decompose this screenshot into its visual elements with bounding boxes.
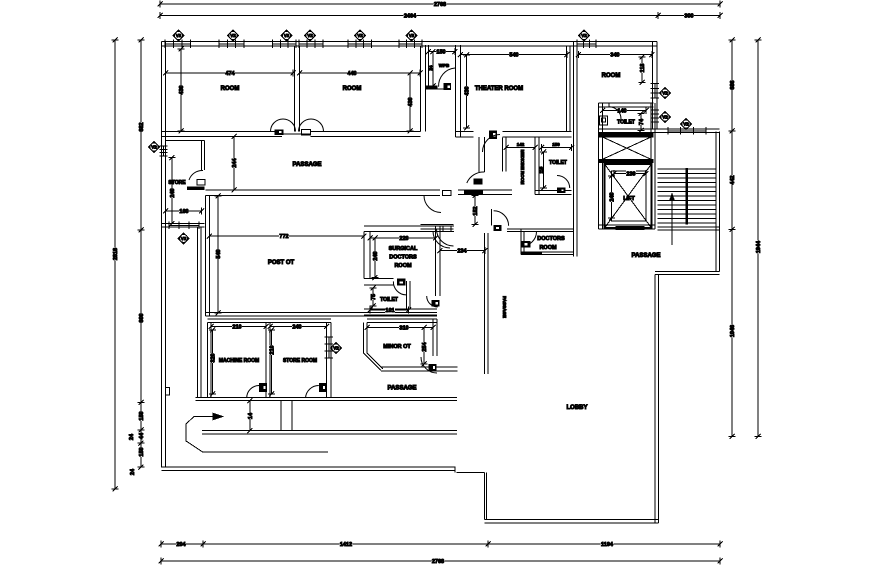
svg-text:150: 150	[139, 447, 145, 456]
svg-text:SURGICAL: SURGICAL	[389, 246, 418, 252]
machine width dim 210	[211, 326, 266, 328]
svg-text:V2: V2	[284, 33, 290, 38]
svg-text:ROOM: ROOM	[602, 73, 621, 79]
svg-text:V2: V2	[230, 33, 236, 38]
dimension right chain 686/442/1046	[731, 40, 733, 131]
wall minor OT left	[363, 323, 365, 353]
minor OT width dim 310	[367, 327, 433, 329]
svg-text:115: 115	[539, 166, 544, 173]
toilet mid width dim 150	[542, 147, 572, 149]
wall minor OT right	[432, 319, 434, 356]
corridor width dim 152	[474, 196, 476, 225]
theater height dim 430	[466, 55, 468, 128]
window store room right wall	[325, 336, 334, 338]
wall theater left / WPB right	[455, 45, 457, 137]
svg-text:V2: V2	[176, 33, 182, 38]
svg-text:24: 24	[130, 468, 136, 475]
svg-text:254: 254	[422, 341, 428, 351]
grid bubble V1 a	[305, 30, 316, 41]
svg-text:DOCTORS: DOCTORS	[537, 236, 565, 242]
wall store top	[166, 136, 205, 138]
stair treads	[658, 168, 716, 170]
svg-text:1944: 1944	[756, 240, 762, 253]
wall passage bottom / post OT top	[206, 189, 441, 191]
svg-text:V2: V2	[181, 236, 187, 241]
svg-text:340: 340	[610, 53, 619, 59]
ramp line 3 with turn arrow	[186, 417, 328, 453]
svg-text:118: 118	[640, 64, 646, 73]
wall surgical left	[363, 232, 365, 279]
svg-text:2464: 2464	[404, 14, 417, 20]
wall under shaft	[599, 158, 654, 160]
passage vertical wall right	[484, 233, 486, 374]
wall stair bottom	[658, 226, 720, 228]
corridor width dim 234	[440, 250, 485, 252]
wall lobby step ledge	[456, 472, 484, 474]
dimension bottom row 204/1412/1194	[161, 543, 203, 545]
ramp line 1	[196, 397, 458, 399]
wall theater bottom right segment / medicine top	[502, 131, 571, 133]
dimension right outer 1944	[757, 40, 759, 437]
svg-text:TOILET: TOILET	[380, 297, 398, 303]
svg-text:14: 14	[248, 412, 254, 419]
grid bubble V2 b	[228, 30, 239, 41]
wall post OT left	[205, 196, 207, 317]
svg-text:V2: V2	[662, 115, 668, 120]
island wall right of passage door	[458, 189, 512, 191]
machine height dim 320	[212, 330, 214, 394]
svg-text:320: 320	[211, 353, 217, 362]
WPB vertical dim	[432, 52, 434, 86]
lift height dim 240	[611, 176, 613, 218]
svg-text:24: 24	[428, 65, 433, 71]
door room2	[299, 119, 312, 132]
theater door leaf	[489, 131, 497, 140]
svg-text:160: 160	[179, 209, 188, 215]
room3 width dim 340	[579, 54, 653, 56]
surgical toilet dim 101	[370, 309, 409, 311]
theater width dim 540	[461, 54, 568, 56]
grid bubble V1 b	[406, 30, 417, 41]
door corridor to doctors passage	[491, 209, 493, 226]
room1 height dim 430	[180, 49, 182, 131]
svg-text:150: 150	[139, 411, 145, 420]
shaft duct box with X	[603, 137, 652, 159]
grid bubble store room window	[331, 343, 342, 354]
door arc corridor low	[437, 229, 454, 246]
surgical width dim 220	[370, 237, 436, 239]
post OT height dim 540	[217, 196, 219, 313]
svg-text:2768: 2768	[434, 2, 446, 8]
window on store bottom wall	[168, 222, 170, 229]
svg-text:220: 220	[399, 236, 408, 242]
svg-text:LIFT: LIFT	[623, 196, 635, 202]
svg-text:1194: 1194	[601, 542, 614, 548]
wall minor OT top	[367, 318, 437, 320]
svg-text:PASSAGE: PASSAGE	[388, 386, 417, 392]
stair direction arrow line	[671, 195, 673, 245]
surgical toilet vert dim	[372, 288, 374, 306]
svg-text:240: 240	[373, 251, 379, 260]
svg-text:LOBBY: LOBBY	[567, 405, 588, 411]
room1 width dim 474	[166, 72, 294, 74]
svg-text:310: 310	[399, 326, 408, 332]
toilet WC fixture	[600, 116, 608, 125]
wall doctors room left	[520, 232, 522, 255]
window W2 top wall	[218, 40, 220, 49]
wall room2 right	[420, 46, 422, 132]
wall lift block right	[650, 103, 652, 229]
store width dim 240	[270, 326, 327, 328]
minor OT vert dim 254	[423, 328, 425, 365]
surgical door bottom right	[427, 296, 438, 307]
wall vestibule left pair	[197, 227, 199, 398]
wall toilet top	[599, 102, 654, 104]
svg-text:24: 24	[129, 433, 135, 440]
wall stair right outer	[715, 132, 717, 272]
window W1 top wall	[164, 40, 166, 49]
wall bottom outer	[162, 466, 456, 468]
surgical toilet top wall	[364, 278, 393, 280]
toilet mid door leaf	[557, 188, 566, 194]
wall doctors room top	[507, 228, 574, 230]
wall notch on left wall	[166, 388, 170, 396]
surgical toilet door	[397, 279, 405, 286]
toilet mid door arc	[557, 175, 570, 188]
svg-text:V2: V2	[307, 33, 313, 38]
svg-text:MEDICINE ROOM: MEDICINE ROOM	[520, 150, 525, 185]
machine room door	[247, 386, 260, 399]
dimension top row 2464 and 300	[160, 15, 658, 17]
grid bubble V3 a	[281, 30, 292, 41]
wall medicine mid	[534, 137, 536, 195]
grid bubble V5	[660, 88, 671, 99]
svg-text:600: 600	[139, 313, 145, 322]
wall doctors room bottom	[521, 251, 574, 253]
store vert dim 240	[171, 158, 173, 224]
wall room3 left / corridor wall	[573, 42, 575, 256]
wall shaft top / floor line	[599, 128, 654, 130]
ramp line 2	[202, 430, 457, 432]
svg-text:44: 44	[139, 432, 145, 439]
wall store room right	[326, 323, 328, 399]
surgical height dim 240	[374, 238, 376, 278]
svg-text:474: 474	[225, 71, 235, 77]
doctors room sill	[521, 252, 542, 255]
svg-text:101: 101	[385, 308, 394, 314]
toilet vert dim	[640, 113, 642, 130]
svg-text:240: 240	[610, 192, 616, 201]
svg-text:DOCTORS: DOCTORS	[389, 255, 417, 261]
wall lobby bottom	[484, 519, 658, 521]
svg-text:210: 210	[270, 345, 276, 354]
wall minor OT chamfer	[364, 353, 382, 371]
grid bubble C left wall	[149, 142, 160, 153]
minor OT door	[421, 357, 437, 373]
WPB width dim 150	[429, 51, 456, 53]
wall lobby step left	[483, 473, 485, 520]
svg-text:442: 442	[730, 175, 736, 184]
wall medicine left	[501, 138, 503, 172]
doctors room door	[522, 232, 537, 247]
svg-text:204: 204	[176, 542, 186, 548]
svg-text:682: 682	[139, 122, 145, 131]
svg-text:686: 686	[730, 80, 736, 89]
theater door arc	[483, 135, 501, 153]
store door leaf sill	[187, 187, 205, 191]
wall toilet bottom / shaft top	[599, 133, 654, 135]
passage door arc at x440	[424, 196, 441, 213]
wall right outer of room block	[652, 42, 654, 130]
grid bubble V3 b	[579, 30, 590, 41]
svg-text:PASSAGE: PASSAGE	[293, 162, 322, 168]
svg-text:300: 300	[684, 14, 693, 20]
wall rooms bottom / passage top	[162, 131, 283, 133]
svg-text:239: 239	[626, 172, 635, 178]
wall toilet mid bottom	[535, 190, 572, 192]
svg-text:150: 150	[436, 50, 445, 56]
svg-text:540: 540	[509, 53, 518, 59]
window W7 top wall right	[576, 40, 578, 49]
toilet door arc	[609, 107, 621, 119]
svg-text:POST OT: POST OT	[268, 260, 295, 266]
wall passage bottom right	[381, 366, 457, 368]
door room1	[271, 119, 284, 132]
corridor wall segment	[421, 224, 454, 226]
lift car box	[612, 171, 647, 221]
wall lift bottom	[599, 224, 656, 226]
wall stair top / window V7	[599, 128, 720, 130]
wall surgical right	[435, 226, 437, 296]
store door arc	[189, 170, 203, 180]
grid bubble V2 a	[173, 30, 184, 41]
svg-text:V2: V2	[151, 145, 157, 150]
svg-text:PASSAGE: PASSAGE	[502, 296, 507, 318]
svg-text:244: 244	[232, 157, 238, 167]
window right wall upper	[651, 83, 660, 85]
dimension top row 2768	[160, 3, 720, 5]
surgical door top right	[443, 226, 451, 232]
window right wall lower	[651, 109, 660, 111]
wall surgical top	[364, 225, 454, 227]
post OT bottom wall	[206, 312, 438, 314]
store width dim 160	[166, 210, 202, 212]
svg-text:2818: 2818	[113, 248, 119, 260]
wall divider room1 room2	[294, 46, 296, 132]
svg-text:2768: 2768	[432, 559, 444, 565]
svg-text:240: 240	[170, 188, 176, 197]
grid bubble V2 store	[178, 233, 189, 244]
lift width dim 239	[614, 173, 646, 175]
svg-text:540: 540	[216, 249, 222, 258]
door arc corridor below theater	[467, 172, 485, 183]
svg-text:V2: V2	[581, 33, 587, 38]
room3 vert dim 118	[641, 57, 643, 83]
post OT width dim 772	[209, 235, 364, 237]
svg-text:PASSAGE: PASSAGE	[632, 253, 661, 259]
wall machine left	[207, 323, 209, 399]
svg-text:ROOM: ROOM	[539, 245, 557, 251]
grid bubble V7	[681, 119, 692, 130]
lift door sill	[616, 226, 645, 228]
wall machine top	[208, 318, 332, 320]
surgical toilet right wall	[406, 281, 408, 309]
wall lift block left	[598, 103, 600, 229]
toilet width dim 140	[603, 110, 647, 112]
svg-text:THEATER ROOM: THEATER ROOM	[475, 86, 523, 92]
svg-text:ROOM: ROOM	[221, 86, 240, 92]
WPB door	[439, 68, 455, 87]
svg-text:ROOM: ROOM	[394, 263, 412, 269]
svg-text:MINOR OT: MINOR OT	[383, 344, 411, 350]
svg-text:V2: V2	[662, 91, 668, 96]
svg-text:STORE ROOM: STORE ROOM	[283, 358, 317, 364]
svg-text:430: 430	[179, 85, 185, 94]
room2 width dim 440	[300, 72, 421, 74]
wall corridor jog below theater	[478, 137, 480, 172]
wall left outer	[161, 42, 163, 468]
wall store right	[201, 141, 203, 171]
dimension bottom row 2768	[161, 560, 720, 562]
surgical toilet bottom wall	[364, 308, 437, 310]
svg-text:150: 150	[552, 142, 560, 147]
svg-text:772: 772	[279, 234, 288, 240]
svg-text:430: 430	[465, 86, 471, 95]
svg-text:240: 240	[292, 325, 301, 331]
svg-text:STORE: STORE	[168, 180, 186, 186]
svg-text:210: 210	[232, 325, 241, 331]
wall lobby right	[654, 275, 656, 524]
svg-text:142: 142	[517, 142, 525, 147]
window left wall at store	[160, 145, 168, 147]
svg-text:74: 74	[639, 118, 645, 125]
passage height dim 244	[233, 137, 235, 191]
svg-text:430: 430	[408, 97, 414, 106]
wall theater bottom left segment	[456, 131, 474, 133]
store room door	[306, 385, 319, 398]
grid bubble V2 c	[355, 30, 366, 41]
medicine width dim 142	[506, 147, 535, 149]
window W4 top wall	[298, 40, 300, 49]
dimension left chain 682/600/150/44/150/24	[140, 40, 142, 230]
svg-text:440: 440	[347, 71, 356, 77]
room2 height dim 430	[409, 73, 411, 131]
wall WPB bottom sill	[425, 88, 443, 90]
svg-text:152: 152	[473, 206, 479, 215]
store height dim 210	[271, 330, 273, 394]
svg-text:V2: V2	[357, 33, 363, 38]
svg-text:V2: V2	[409, 33, 415, 38]
ramp column	[280, 401, 282, 431]
svg-text:TOILET: TOILET	[617, 120, 635, 126]
window W3 top wall	[272, 40, 274, 49]
window W6 top wall	[398, 40, 400, 49]
dimension left outer 2818	[114, 40, 116, 489]
svg-text:MACHINE ROOM: MACHINE ROOM	[219, 358, 259, 364]
svg-text:ROOM: ROOM	[343, 86, 362, 92]
window W5 top wall	[347, 40, 349, 49]
svg-text:75: 75	[371, 294, 377, 300]
wall store bottom	[162, 223, 205, 225]
svg-text:V2: V2	[683, 122, 689, 127]
grid bubble V4	[660, 112, 671, 123]
svg-text:234: 234	[457, 249, 467, 255]
wall theater right	[566, 46, 568, 132]
svg-text:TOILET: TOILET	[549, 160, 567, 166]
lift cabin outer box	[605, 164, 652, 228]
svg-text:V2: V2	[333, 346, 339, 351]
stair center stringer	[685, 168, 688, 225]
ramp dim 14	[249, 401, 251, 431]
wall machine/store divider	[265, 323, 267, 399]
wall WPB left	[424, 45, 426, 89]
wall lobby top right jog	[655, 271, 720, 273]
toilet mid vert dim	[543, 152, 545, 188]
svg-text:1412: 1412	[340, 542, 352, 548]
wall top outer	[162, 41, 658, 43]
svg-text:1046: 1046	[730, 325, 736, 337]
svg-text:WPB: WPB	[439, 63, 450, 68]
